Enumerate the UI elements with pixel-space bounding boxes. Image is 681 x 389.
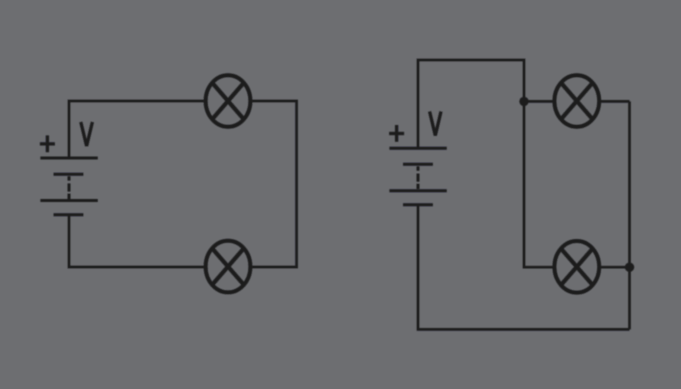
wire: lamp L4 to node B: [601, 266, 630, 269]
wire: lamp L2 left along bottom, up to battery negative: [69, 215, 204, 267]
label + (battery B2 positive): [389, 125, 404, 142]
wire: lamp L1 right, down right side, to lamp L2 right: [252, 101, 297, 267]
label V (battery B2): [430, 112, 441, 136]
wire: left circuit, battery positive up and across top to lamp L1: [69, 101, 204, 158]
wire: right rail down to bottom corner: [628, 101, 631, 329]
label + (battery B1 positive): [40, 135, 55, 152]
battery B1 (multi-cell, series circuit): [40, 158, 97, 215]
lamp L4 (bottom lamp, parallel circuit): [554, 241, 599, 293]
lamp L3 (top lamp, parallel circuit): [554, 75, 599, 127]
lamp L2 (bottom lamp, series circuit): [206, 241, 251, 293]
junction node B (bottom branch point): [625, 263, 634, 272]
wire: lamp L3 to right rail: [601, 100, 630, 103]
battery B2 (multi-cell, parallel circuit): [389, 148, 446, 205]
wire: right circuit, battery positive up, across top, down left branch to lamp L4: [418, 60, 553, 267]
lamp L1 (top lamp, series circuit): [206, 75, 251, 127]
wire: node A to lamp L3: [524, 100, 553, 103]
label V (battery B1): [81, 122, 93, 146]
wire: bottom return to battery negative: [418, 205, 630, 330]
junction node A (top branch point): [519, 97, 528, 106]
